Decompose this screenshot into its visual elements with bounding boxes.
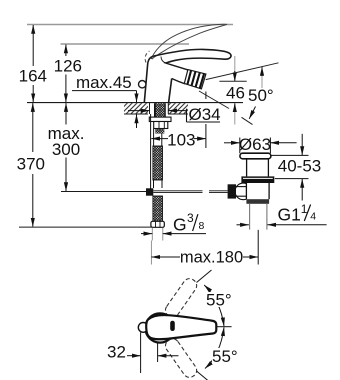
40-53 dimension	[272, 134, 322, 201]
svg-text:103: 103	[167, 131, 195, 150]
reference line top (max open handle height)	[27, 24, 233, 26]
braided hose upper	[153, 146, 163, 180]
svg-text:55°: 55°	[206, 291, 232, 310]
svg-text:370: 370	[17, 155, 45, 174]
pop-up rod	[150, 114, 152, 189]
pop-up pull knob	[139, 81, 146, 88]
32 dimension	[140, 333, 142, 374]
mid extension line (max.300 / linkage)	[61, 191, 146, 193]
mounting deck top line	[27, 102, 243, 104]
dimension 164	[19, 25, 47, 102]
mounting nut	[154, 122, 168, 129]
dimension 126	[54, 45, 82, 103]
knob	[138, 323, 148, 333]
Ø63 dimension	[239, 138, 241, 154]
stub pipe + cap	[236, 186, 246, 188]
rod coupling	[146, 188, 153, 195]
stub boss	[235, 183, 252, 200]
solid lever	[146, 315, 216, 339]
max.180 dimension	[151, 230, 258, 267]
svg-text:32: 32	[107, 343, 126, 362]
svg-text:55°: 55°	[212, 347, 238, 366]
plug disc	[240, 153, 271, 159]
G3/8 nut	[151, 221, 164, 227]
tailpipe	[249, 204, 251, 230]
svg-text:Ø63: Ø63	[239, 135, 271, 154]
linkage rod to drain	[153, 190, 202, 192]
svg-text:Ø34: Ø34	[189, 105, 221, 124]
dashed lever down	[163, 336, 199, 380]
svg-text:3: 3	[187, 211, 194, 225]
svg-text:50°: 50°	[248, 86, 274, 105]
body tube	[246, 183, 269, 230]
G1 1/4 callout	[237, 202, 327, 225]
lever marker	[170, 321, 175, 331]
neck	[246, 159, 248, 177]
washer	[149, 117, 171, 121]
dimension 370	[17, 103, 45, 227]
bottom extension line (370)	[19, 226, 152, 228]
lock band	[246, 199, 269, 204]
dimension max.300	[48, 103, 85, 191]
svg-text:G1: G1	[278, 205, 301, 225]
svg-text:8: 8	[199, 220, 205, 232]
Ø34 callout	[128, 105, 221, 124]
seat ring	[241, 176, 274, 183]
103 dimension	[151, 92, 206, 150]
svg-text:40-53: 40-53	[278, 157, 321, 176]
dashed lever up	[163, 276, 199, 320]
svg-text:46: 46	[226, 84, 245, 103]
svg-text:164: 164	[19, 67, 47, 86]
dimension max.45 (deck thickness)	[72, 73, 137, 128]
spout aerator	[184, 70, 206, 89]
svg-text:max.45: max.45	[76, 73, 132, 92]
G3/8 dimension	[141, 211, 206, 240]
reference line handle closed	[61, 43, 190, 45]
faucet body + handle + spout	[144, 49, 231, 102]
55 deg arcs	[216, 326, 231, 328]
deck section left slab	[124, 103, 150, 114]
svg-text:G: G	[173, 215, 187, 235]
shank and hose below deck	[146, 103, 228, 227]
body circle	[145, 313, 174, 342]
deck section right slab	[168, 103, 188, 114]
PLAN VIEW	[107, 270, 239, 380]
svg-text:4: 4	[310, 211, 316, 223]
46 dimension + 50 degrees	[199, 56, 279, 125]
braided hose lower	[153, 196, 163, 221]
handle raised position (phantom)	[145, 24, 227, 62]
DRAIN (pop-up waste)	[224, 135, 297, 230]
svg-text:300: 300	[52, 140, 80, 159]
plain pipe	[153, 129, 155, 147]
svg-text:max.180: max.180	[180, 249, 243, 267]
threaded rod below nut	[155, 129, 164, 134]
